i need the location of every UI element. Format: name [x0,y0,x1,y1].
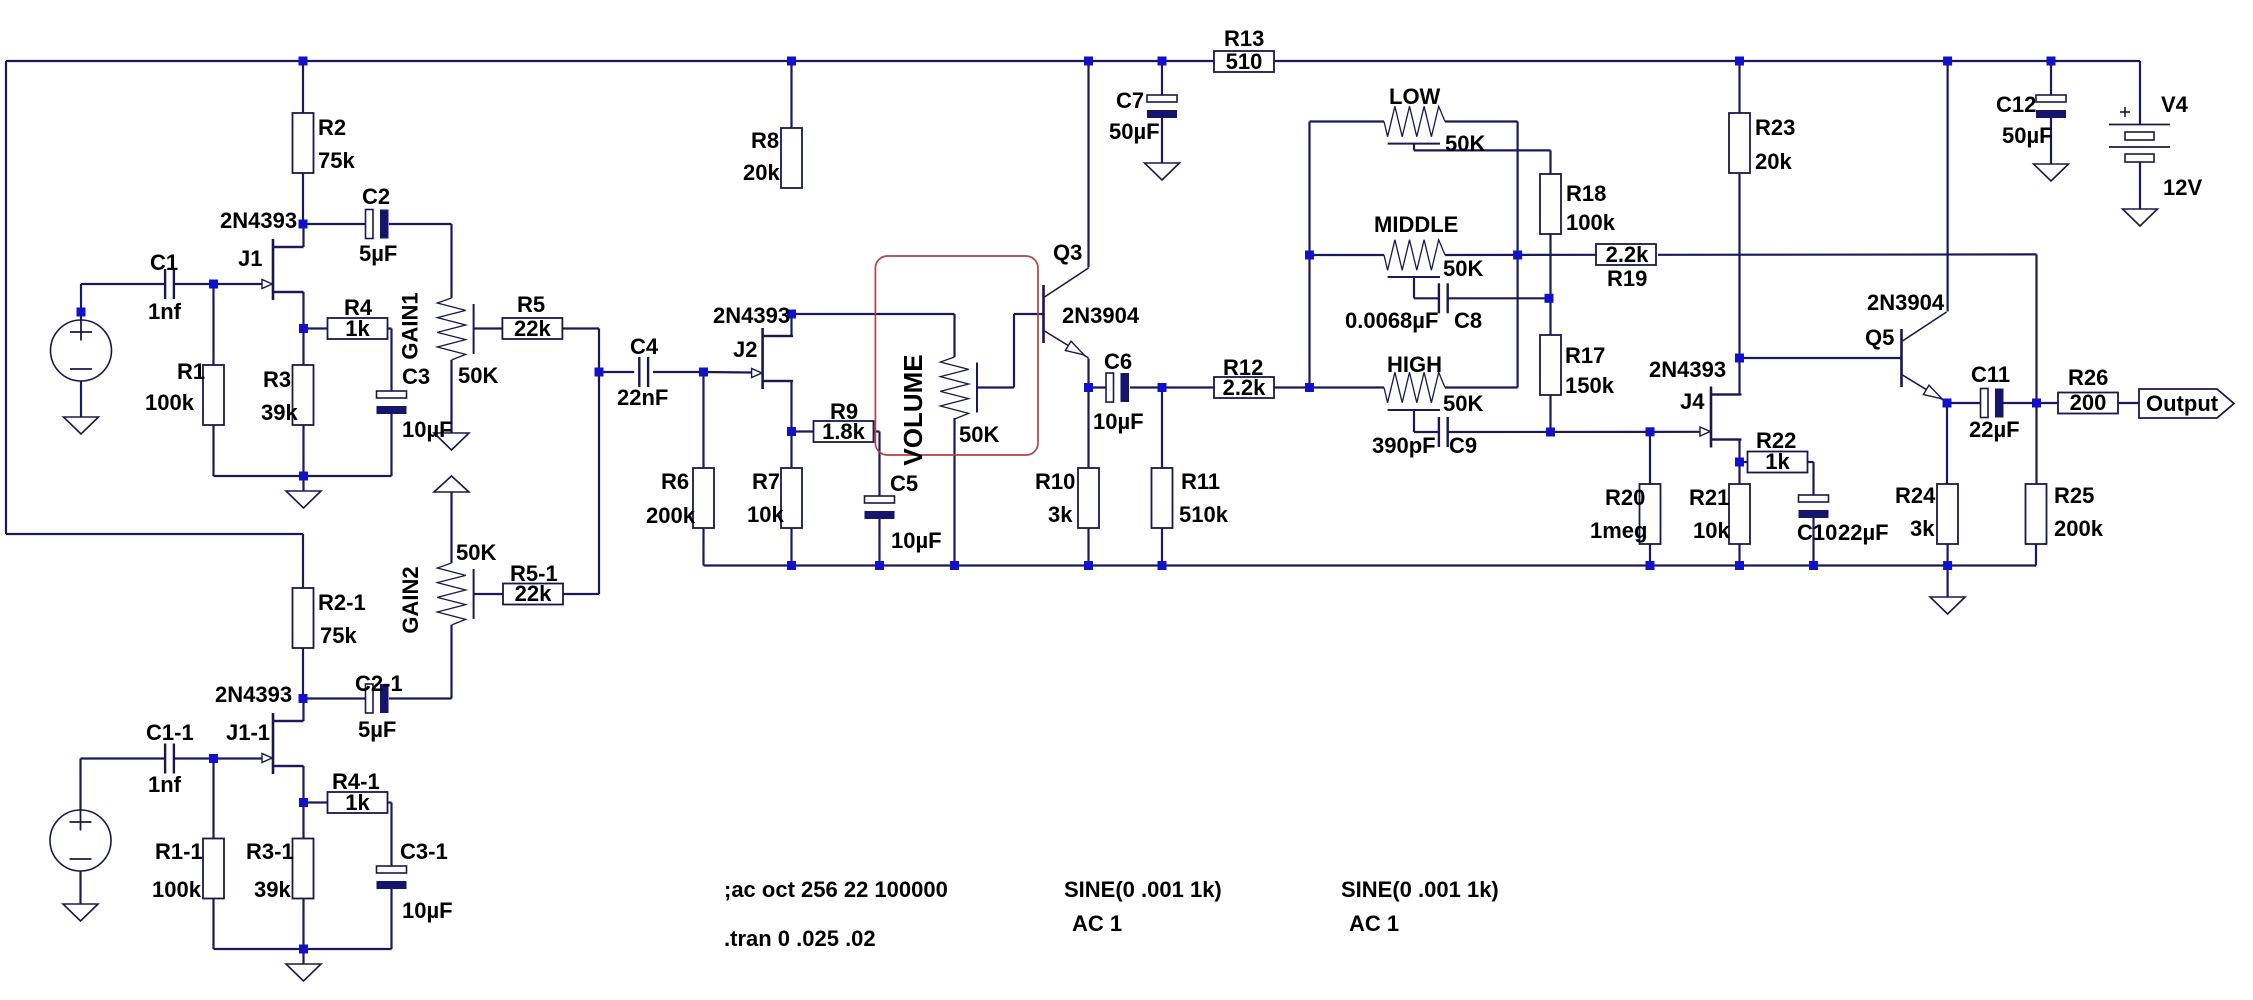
svg-text:100k: 100k [145,390,195,415]
svg-text:20k: 20k [743,160,780,185]
svg-text:R6: R6 [661,469,689,494]
svg-text:J4: J4 [1680,389,1705,414]
svg-text:R8: R8 [751,128,779,153]
svg-text:510k: 510k [1179,502,1229,527]
svg-text:1meg: 1meg [1590,518,1647,543]
svg-text:HIGH: HIGH [1387,352,1442,377]
svg-text:510: 510 [1226,49,1263,74]
svg-text:22nF: 22nF [617,385,668,410]
svg-text:10k: 10k [1693,518,1730,543]
svg-text:39k: 39k [261,400,298,425]
svg-text:R1: R1 [177,359,205,384]
svg-text:J1: J1 [238,246,262,271]
svg-text:390pF: 390pF [1372,433,1436,458]
svg-text:AC 1: AC 1 [1072,911,1122,936]
svg-text:75k: 75k [318,148,355,173]
svg-text:R26: R26 [2068,365,2108,390]
svg-text:10µF: 10µF [402,898,453,923]
svg-text:10µF: 10µF [1093,409,1144,434]
svg-text:22µF: 22µF [1838,520,1889,545]
svg-text:R24: R24 [1895,483,1936,508]
svg-text:V4: V4 [2161,92,2189,117]
svg-text:R2: R2 [318,115,346,140]
svg-text:1.8k: 1.8k [822,419,866,444]
svg-text:50K: 50K [959,422,999,447]
svg-text:2N3904: 2N3904 [1867,290,1945,315]
svg-text:AC 1: AC 1 [1349,911,1399,936]
svg-text:R7: R7 [752,469,780,494]
svg-text:2N4393: 2N4393 [713,303,790,328]
svg-text:2N4393: 2N4393 [215,682,292,707]
svg-text:.tran 0 .025 .02: .tran 0 .025 .02 [724,926,876,951]
svg-text:C6: C6 [1104,349,1132,374]
svg-text:3k: 3k [1048,502,1073,527]
svg-text:J1-1: J1-1 [226,720,270,745]
svg-text:Q5: Q5 [1865,325,1894,350]
svg-text:1k: 1k [345,316,370,341]
svg-text:SINE(0 .001 1k): SINE(0 .001 1k) [1341,877,1499,902]
svg-text:GAIN2: GAIN2 [398,566,423,633]
svg-text:R1-1: R1-1 [155,839,203,864]
svg-text:50K: 50K [456,540,496,565]
svg-text:200k: 200k [2054,516,2104,541]
svg-text:50µF: 50µF [1109,119,1160,144]
svg-text:100k: 100k [152,877,202,902]
svg-text:C2: C2 [362,184,390,209]
svg-text:2N3904: 2N3904 [1062,303,1140,328]
svg-text:R10: R10 [1035,469,1075,494]
svg-text:R18: R18 [1566,181,1606,206]
svg-text:C4: C4 [630,334,659,359]
svg-text:0.0068µF: 0.0068µF [1345,308,1438,333]
svg-text:2N4393: 2N4393 [1649,357,1726,382]
svg-text:VOLUME: VOLUME [898,354,928,465]
svg-text:100k: 100k [1566,210,1616,235]
svg-text:J2: J2 [733,337,757,362]
svg-text:1k: 1k [1765,449,1790,474]
svg-text:2N4393: 2N4393 [220,208,297,233]
svg-text:50K: 50K [1443,256,1483,281]
svg-text:22k: 22k [515,581,552,606]
svg-text:20k: 20k [1755,149,1792,174]
svg-text:1k: 1k [345,790,370,815]
svg-text:39k: 39k [254,877,291,902]
svg-text:C10: C10 [1797,520,1837,545]
svg-text:50µF: 50µF [2002,123,2053,148]
svg-text:22µF: 22µF [1969,417,2020,442]
svg-text:C1: C1 [150,250,178,275]
svg-text:R2-1: R2-1 [318,590,366,615]
svg-text:C9: C9 [1449,433,1477,458]
svg-text:R13: R13 [1224,26,1264,51]
svg-text:GAIN1: GAIN1 [398,292,423,359]
svg-text:SINE(0 .001 1k): SINE(0 .001 1k) [1064,877,1222,902]
svg-text:MIDDLE: MIDDLE [1374,212,1458,237]
svg-text:;ac oct 256 22 100000: ;ac oct 256 22 100000 [724,877,948,902]
svg-text:10µF: 10µF [891,528,942,553]
svg-text:200: 200 [2070,390,2107,415]
svg-text:C1-1: C1-1 [146,720,194,745]
svg-text:1nf: 1nf [148,772,182,797]
svg-text:C12: C12 [1996,92,2036,117]
svg-text:R21: R21 [1689,485,1729,510]
svg-text:R5: R5 [517,292,545,317]
svg-text:75k: 75k [320,623,357,648]
svg-text:5µF: 5µF [358,717,396,742]
svg-text:C8: C8 [1454,308,1482,333]
svg-text:R25: R25 [2054,483,2094,508]
svg-text:R19: R19 [1607,266,1647,291]
svg-text:2.2k: 2.2k [1606,242,1650,267]
svg-text:R17: R17 [1565,343,1605,368]
svg-text:10µF: 10µF [402,417,453,442]
svg-text:C5: C5 [890,471,918,496]
svg-text:10k: 10k [747,502,784,527]
svg-text:50K: 50K [458,363,498,388]
svg-text:Output: Output [2146,391,2219,416]
svg-text:50K: 50K [1443,391,1483,416]
svg-text:C3-1: C3-1 [400,839,448,864]
svg-text:12V: 12V [2163,175,2202,200]
svg-text:22k: 22k [514,316,551,341]
svg-text:200k: 200k [646,503,696,528]
svg-text:R20: R20 [1605,485,1645,510]
svg-text:50K: 50K [1445,131,1485,156]
svg-text:5µF: 5µF [359,241,397,266]
svg-text:3k: 3k [1910,516,1935,541]
svg-text:Q3: Q3 [1053,240,1082,265]
svg-text:LOW: LOW [1389,84,1441,109]
svg-text:R11: R11 [1181,469,1220,494]
svg-text:C2-1: C2-1 [355,671,403,696]
svg-text:150k: 150k [1565,373,1615,398]
svg-text:C11: C11 [1971,362,2010,387]
svg-text:1nf: 1nf [148,299,182,324]
svg-text:R23: R23 [1755,115,1795,140]
svg-text:R3: R3 [263,367,291,392]
svg-text:C3: C3 [402,364,430,389]
svg-text:R3-1: R3-1 [246,839,294,864]
svg-text:C7: C7 [1116,88,1144,113]
svg-text:2.2k: 2.2k [1223,375,1267,400]
